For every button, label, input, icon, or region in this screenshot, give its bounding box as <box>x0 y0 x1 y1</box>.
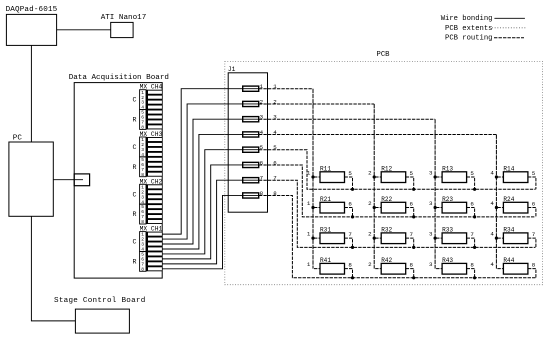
svg-text:5: 5 <box>532 170 536 177</box>
svg-text:8: 8 <box>348 262 352 269</box>
svg-text:8: 8 <box>141 266 144 272</box>
svg-text:R31: R31 <box>320 227 331 234</box>
svg-text:R: R <box>133 259 137 266</box>
svg-text:R22: R22 <box>381 196 392 203</box>
svg-text:ATI Nano17: ATI Nano17 <box>101 14 147 22</box>
svg-text:R11: R11 <box>320 166 331 173</box>
svg-text:PCB extents: PCB extents <box>445 25 492 33</box>
svg-text:1: 1 <box>307 170 311 177</box>
svg-text:1: 1 <box>307 231 311 238</box>
svg-text:R43: R43 <box>442 257 453 264</box>
svg-text:DAQPad-6015: DAQPad-6015 <box>6 6 58 14</box>
svg-text:J1: J1 <box>228 66 236 73</box>
svg-text:8: 8 <box>410 262 414 269</box>
svg-text:5: 5 <box>410 170 414 177</box>
svg-text:PCB: PCB <box>377 51 391 59</box>
svg-text:2: 2 <box>368 200 372 207</box>
svg-text:R13: R13 <box>442 166 453 173</box>
svg-text:Wire bonding: Wire bonding <box>441 15 493 23</box>
svg-text:R44: R44 <box>503 257 514 264</box>
svg-text:4: 4 <box>490 200 494 207</box>
svg-text:7: 7 <box>348 231 352 238</box>
svg-text:3: 3 <box>429 231 433 238</box>
svg-text:7: 7 <box>470 231 474 238</box>
svg-text:7: 7 <box>410 231 414 238</box>
svg-text:1: 1 <box>307 261 311 268</box>
svg-text:R: R <box>133 164 137 171</box>
svg-text:R21: R21 <box>320 196 331 203</box>
svg-text:3: 3 <box>429 170 433 177</box>
svg-text:2: 2 <box>368 170 372 177</box>
svg-text:2: 2 <box>368 231 372 238</box>
svg-text:4: 4 <box>490 261 494 268</box>
svg-text:1: 1 <box>307 200 311 207</box>
svg-text:5: 5 <box>348 170 352 177</box>
svg-text:R23: R23 <box>442 196 453 203</box>
svg-text:R: R <box>133 211 137 218</box>
svg-text:3: 3 <box>429 261 433 268</box>
svg-text:Data Acquisition Board: Data Acquisition Board <box>69 74 169 82</box>
svg-text:8: 8 <box>141 172 144 178</box>
svg-text:8: 8 <box>470 262 474 269</box>
svg-text:R24: R24 <box>503 196 514 203</box>
svg-text:2: 2 <box>368 261 372 268</box>
svg-text:C: C <box>133 239 137 246</box>
svg-text:6: 6 <box>410 201 414 208</box>
svg-text:R34: R34 <box>503 227 514 234</box>
svg-text:6: 6 <box>532 201 536 208</box>
svg-text:8: 8 <box>141 125 144 131</box>
svg-text:C: C <box>133 144 137 151</box>
svg-text:7: 7 <box>532 231 536 238</box>
svg-text:6: 6 <box>470 201 474 208</box>
svg-text:8: 8 <box>532 262 536 269</box>
svg-text:4: 4 <box>490 170 494 177</box>
svg-text:4: 4 <box>490 231 494 238</box>
svg-text:6: 6 <box>348 201 352 208</box>
svg-text:5: 5 <box>470 170 474 177</box>
svg-text:R: R <box>133 117 137 124</box>
svg-text:PCB routing: PCB routing <box>445 35 492 43</box>
svg-text:R41: R41 <box>320 257 331 264</box>
svg-text:C: C <box>133 191 137 198</box>
svg-text:R42: R42 <box>381 257 392 264</box>
svg-text:3: 3 <box>429 200 433 207</box>
svg-text:R14: R14 <box>503 166 514 173</box>
svg-text:R33: R33 <box>442 227 453 234</box>
svg-text:PC: PC <box>13 134 23 142</box>
svg-text:8: 8 <box>141 219 144 225</box>
svg-text:R32: R32 <box>381 227 392 234</box>
svg-text:C: C <box>133 97 137 104</box>
svg-text:Stage Control Board: Stage Control Board <box>54 297 146 305</box>
svg-text:R12: R12 <box>381 166 392 173</box>
